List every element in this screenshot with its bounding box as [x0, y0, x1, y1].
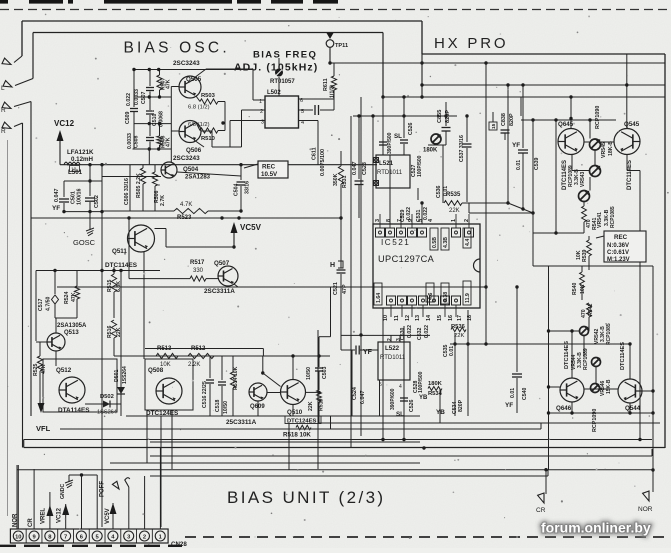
svg-text:C838: C838 — [501, 113, 507, 126]
wires Q509 Q510 — [267, 392, 281, 394]
svg-text:VC5V: VC5V — [240, 223, 262, 232]
svg-text:0.01: 0.01 — [510, 388, 516, 398]
svg-text:18: 18 — [467, 315, 473, 321]
resistor R510 6.8 — [200, 128, 218, 133]
svg-text:4.4: 4.4 — [465, 239, 471, 246]
svg-text:Q504: Q504 — [183, 166, 199, 173]
svg-text:2SC3311A: 2SC3311A — [204, 288, 235, 295]
svg-text:1SS264: 1SS264 — [122, 366, 128, 384]
cap YF C540 — [516, 287, 518, 372]
svg-text:C509: C509 — [125, 111, 131, 124]
frame step to HX PRO line — [422, 53, 665, 55]
svg-text:Q506: Q506 — [186, 147, 202, 154]
cap C516 — [209, 356, 211, 378]
cap C51x 15 — [492, 112, 494, 122]
vertical x147 — [146, 410, 148, 463]
diagonal wire — [508, 203, 533, 213]
transistor Q545 — [614, 129, 640, 155]
svg-text:0.0033: 0.0033 — [127, 133, 133, 149]
svg-text:4.38: 4.38 — [443, 292, 449, 302]
svg-text:2SA1283: 2SA1283 — [185, 175, 211, 181]
svg-text:Q507: Q507 — [214, 260, 230, 267]
bottom dashed line — [185, 536, 671, 538]
transistor Q506 — [179, 121, 201, 143]
cap C501 cluster — [89, 165, 91, 181]
resistor R503 6.8 — [200, 99, 218, 104]
svg-text:C507: C507 — [141, 91, 147, 104]
resistor R539 10K — [587, 240, 592, 256]
oscillator cap bank rails — [133, 69, 254, 71]
pot VR541 — [579, 191, 590, 202]
svg-text:IC521: IC521 — [381, 238, 410, 247]
svg-text:47K: 47K — [166, 137, 172, 147]
svg-text:L: L — [1, 85, 5, 92]
transformer L521 — [376, 155, 410, 188]
resistors R505 R506 vertical — [140, 168, 145, 184]
IC bottom pins — [387, 296, 396, 305]
L502 pin6 wire — [299, 98, 335, 100]
svg-text:BIAS OSC.: BIAS OSC. — [124, 40, 230, 57]
cap C504 — [240, 165, 242, 180]
left scan edge line — [7, 140, 9, 516]
svg-text:C523: C523 — [362, 162, 368, 175]
cap C527 — [417, 188, 419, 200]
svg-text:C516 22/25: C516 22/25 — [202, 381, 208, 408]
vertical x330 — [330, 416, 332, 429]
svg-text:R517: R517 — [190, 260, 205, 266]
bus line y476 — [150, 475, 548, 477]
svg-text:13: 13 — [415, 315, 421, 321]
rail y86 — [422, 84, 665, 86]
svg-text:Q510: Q510 — [287, 409, 303, 416]
svg-text:10K: 10K — [580, 284, 586, 294]
bus line y463 — [110, 462, 420, 464]
cluster bottom rail — [64, 211, 102, 213]
resistor R541 470 — [582, 206, 587, 222]
svg-text:2SC3243: 2SC3243 — [173, 155, 200, 162]
pot VR542 — [580, 327, 589, 336]
svg-text:0.5B: 0.5B — [432, 237, 438, 248]
svg-text:R524: R524 — [64, 291, 70, 304]
wire x546 down — [548, 266, 550, 470]
svg-text:18K-B: 18K-B — [608, 141, 614, 156]
cap 390P/500 SL — [382, 116, 384, 140]
svg-text:R541: R541 — [592, 217, 598, 230]
svg-text:12: 12 — [405, 315, 411, 321]
svg-text:C506 33/16: C506 33/16 — [124, 178, 130, 205]
svg-text:VREL: VREL — [41, 508, 47, 524]
svg-text:YB: YB — [419, 395, 428, 401]
pot VR545 — [590, 139, 601, 150]
base spine x171 — [170, 87, 172, 132]
transistor Q512 — [59, 377, 85, 403]
resistor R531 350K — [340, 151, 342, 166]
NOR connector — [652, 413, 654, 492]
main rail y165 — [60, 164, 377, 166]
svg-text:C503: C503 — [322, 366, 328, 379]
pot VR544 — [592, 358, 601, 367]
cap C517 — [54, 271, 56, 295]
test point TP11 — [327, 33, 334, 39]
svg-text:C855: C855 — [437, 110, 443, 123]
svg-text:NOR: NOR — [638, 506, 653, 513]
svg-text:C526: C526 — [408, 122, 414, 135]
transistor Q511 — [128, 225, 155, 252]
left connector arrow 4 R — [14, 123, 23, 127]
svg-text:RTD1011: RTD1011 — [380, 355, 406, 361]
svg-text:YF: YF — [512, 142, 520, 149]
svg-text:4: 4 — [428, 219, 434, 222]
svg-text:C524: C524 — [352, 387, 358, 400]
svg-text:0.01: 0.01 — [449, 346, 455, 356]
svg-text:2.7K: 2.7K — [160, 195, 166, 206]
svg-text:R: R — [1, 128, 6, 135]
REC levels flag — [596, 236, 604, 238]
connector CN28 box — [10, 529, 168, 543]
svg-text:C521: C521 — [333, 282, 339, 295]
svg-text:DTC114ES: DTC114ES — [105, 262, 138, 269]
svg-text:C:0.61V: C:0.61V — [607, 250, 629, 256]
svg-text:CR: CR — [28, 518, 34, 527]
svg-text:10K: 10K — [160, 362, 171, 368]
svg-text:C532: C532 — [417, 327, 423, 340]
svg-text:D501: D501 — [114, 369, 120, 382]
rail y356 — [114, 355, 330, 357]
svg-text:8: 8 — [386, 219, 392, 222]
connector stub 3 POFF switch — [128, 487, 130, 529]
svg-text:REC: REC — [614, 234, 628, 241]
pot RT01057 — [278, 58, 280, 67]
svg-text:RCP1085: RCP1085 — [606, 323, 612, 345]
connector stub 9 CR — [33, 469, 35, 529]
rail segment y176 — [102, 176, 161, 178]
svg-text:C504: C504 — [234, 183, 240, 196]
transistor Q508 — [156, 378, 182, 404]
cap C521 47P — [340, 218, 342, 268]
svg-text:Q512: Q512 — [56, 367, 72, 374]
diode D501 column — [120, 271, 122, 417]
cap YF C524 — [355, 346, 357, 355]
svg-text:390P/600: 390P/600 — [390, 388, 396, 410]
resistor R512 2.2K — [188, 353, 214, 358]
transistor Q507 — [218, 266, 238, 286]
svg-text:C517: C517 — [38, 298, 44, 311]
wire x556 — [555, 120, 557, 233]
svg-text:0.022: 0.022 — [424, 325, 430, 338]
svg-text:330: 330 — [193, 268, 204, 274]
svg-text:R515: R515 — [107, 279, 113, 292]
svg-text:7: 7 — [397, 219, 403, 222]
svg-text:4.3B: 4.3B — [443, 237, 449, 248]
svg-text:0.047: 0.047 — [54, 189, 60, 203]
svg-text:D502: D502 — [100, 394, 114, 400]
svg-text:11.9: 11.9 — [465, 293, 471, 303]
resistor R540 10K — [580, 272, 585, 288]
svg-text:R: R — [1, 107, 6, 114]
scan speckles — [428, 16, 429, 17]
svg-text:RCP1090: RCP1090 — [595, 106, 601, 129]
svg-text:SL: SL — [396, 411, 404, 418]
resistor R525 — [37, 356, 42, 371]
resistor R513 10K — [156, 353, 178, 358]
svg-text:R518 10K: R518 10K — [283, 432, 311, 439]
svg-text:VFL: VFL — [36, 424, 51, 433]
svg-text:15: 15 — [491, 123, 497, 129]
bus line y442 — [150, 441, 420, 443]
svg-text:C510: C510 — [152, 113, 158, 126]
svg-text:UPC1297CA: UPC1297CA — [378, 254, 435, 264]
svg-text:DTC124ES: DTC124ES — [287, 418, 316, 424]
svg-text:C530: C530 — [400, 327, 406, 340]
transformer L522 — [378, 342, 410, 380]
resistor R523 — [102, 210, 174, 212]
rail y270 left — [36, 270, 160, 272]
page top thin dashed line — [0, 9, 671, 11]
svg-text:C518: C518 — [215, 399, 221, 412]
Q512 loop box — [43, 359, 117, 412]
svg-text:C526: C526 — [409, 399, 415, 412]
CR connector — [545, 470, 547, 494]
Q508 loop box — [145, 359, 193, 410]
svg-text:RT01057: RT01057 — [270, 79, 295, 85]
svg-text:VR545: VR545 — [601, 142, 607, 158]
svg-text:2: 2 — [387, 338, 393, 341]
svg-text:22K: 22K — [308, 401, 314, 411]
svg-text:R519: R519 — [319, 398, 325, 411]
svg-text:180K: 180K — [423, 148, 438, 154]
svg-text:Q646: Q646 — [556, 405, 572, 412]
svg-text:C611: C611 — [312, 147, 318, 160]
IC top pins — [376, 228, 385, 237]
svg-text:4.6: 4.6 — [428, 293, 434, 300]
bank to rail wire — [148, 149, 150, 165]
svg-text:HX PRO: HX PRO — [434, 35, 508, 52]
VC5V arrow — [231, 222, 238, 233]
connector stub 2 — [144, 476, 146, 529]
svg-text:REC: REC — [262, 164, 276, 171]
svg-text:47K: 47K — [71, 292, 77, 302]
transistor Q504 — [161, 162, 177, 178]
svg-text:forum.onliner.by: forum.onliner.by — [541, 520, 651, 536]
resistor R514 — [232, 356, 234, 372]
svg-text:15: 15 — [437, 315, 443, 321]
svg-text:R535: R535 — [446, 192, 461, 198]
junction dots bus — [422, 446, 425, 449]
svg-text:R611: R611 — [323, 78, 329, 91]
svg-text:1(1/2): 1(1/2) — [330, 85, 336, 98]
svg-text:470: 470 — [581, 309, 587, 318]
svg-text:14: 14 — [426, 315, 432, 321]
svg-text:SL: SL — [394, 133, 402, 140]
L502 pin4 wire — [299, 120, 319, 122]
connector stub 4 VC5V — [112, 503, 114, 529]
bus line y439 — [24, 439, 652, 441]
cap C525 — [403, 116, 405, 138]
svg-text:2SA1305A: 2SA1305A — [57, 323, 87, 329]
svg-text:R540: R540 — [572, 282, 578, 295]
svg-text:NOR: NOR — [13, 513, 19, 527]
svg-text:0.022: 0.022 — [407, 325, 413, 338]
vertical x161 — [160, 416, 162, 527]
svg-text:820P: 820P — [458, 399, 464, 412]
svg-text:47K: 47K — [166, 79, 172, 89]
svg-text:RCP1090: RCP1090 — [592, 409, 598, 432]
svg-text:VC12: VC12 — [57, 507, 63, 523]
svg-text:7: 7 — [64, 534, 67, 540]
rail y120 right — [521, 119, 616, 121]
svg-text:R505 2.2K: R505 2.2K — [136, 173, 142, 198]
svg-text:100P/500: 100P/500 — [418, 371, 424, 393]
svg-text:2SC3243: 2SC3243 — [173, 60, 200, 67]
transistor Q646 — [560, 378, 584, 402]
outer frame top — [22, 20, 422, 22]
svg-text:11: 11 — [394, 315, 400, 321]
left connector arrow 2 L — [15, 79, 33, 86]
rail y423 — [318, 422, 660, 424]
L502 pin2 wire — [242, 109, 266, 111]
link line y318 — [55, 317, 77, 319]
svg-text:C540: C540 — [522, 387, 528, 400]
GNDC ground net — [69, 474, 97, 476]
svg-text:POFF: POFF — [100, 481, 106, 497]
svg-text:C536: C536 — [436, 185, 442, 198]
svg-text:15K-B: 15K-B — [606, 379, 612, 394]
Q506 collector diag — [194, 140, 204, 147]
svg-text:390P/500: 390P/500 — [387, 132, 393, 154]
svg-text:GNDC: GNDC — [60, 483, 66, 499]
svg-text:Q544: Q544 — [625, 405, 641, 412]
svg-text:9: 9 — [408, 219, 414, 222]
svg-text:L521: L521 — [379, 160, 394, 167]
vertical x318 — [317, 330, 319, 469]
svg-text:DTC114ES: DTC114ES — [620, 342, 626, 370]
svg-text:C508: C508 — [134, 135, 140, 148]
svg-text:C537 33/16: C537 33/16 — [459, 135, 465, 162]
svg-text:1SS264: 1SS264 — [97, 410, 117, 416]
svg-text:0.01: 0.01 — [516, 160, 522, 170]
long vertical from rail x102 — [101, 165, 103, 527]
svg-text:R539: R539 — [582, 249, 588, 262]
cap C510 — [149, 97, 151, 110]
REC 10.5V flag — [244, 164, 258, 168]
wire Q507 emitter y287 — [234, 284, 238, 287]
svg-text:Q508: Q508 — [148, 367, 164, 374]
svg-text:GOSC: GOSC — [73, 238, 96, 247]
svg-text:LFA121K: LFA121K — [67, 149, 94, 156]
emitter stubs — [196, 96, 200, 102]
svg-text:L502: L502 — [267, 90, 281, 96]
bus line y469 — [17, 469, 653, 471]
cap C508 — [149, 124, 151, 136]
svg-text:M:1.23V: M:1.23V — [607, 257, 630, 263]
svg-text:Q505: Q505 — [186, 76, 202, 83]
vertical x289 — [288, 423, 290, 470]
wires above IC — [372, 116, 374, 224]
svg-text:BIAS UNIT (2/3): BIAS UNIT (2/3) — [227, 488, 386, 507]
svg-text:R503: R503 — [201, 93, 216, 99]
svg-text:R542: R542 — [588, 303, 594, 316]
watermark text with glow — [541, 520, 651, 536]
svg-text:10.5V: 10.5V — [261, 171, 278, 178]
svg-text:R531: R531 — [342, 175, 348, 188]
svg-text:R516: R516 — [107, 325, 113, 338]
rail y97 — [383, 96, 665, 98]
label R518 10K — [296, 425, 311, 429]
wires right pair — [584, 141, 589, 143]
svg-text:47P: 47P — [342, 284, 348, 294]
cap C536 — [442, 145, 444, 203]
left wire x31 down — [30, 102, 32, 417]
svg-text:47K: 47K — [41, 364, 47, 374]
connector stub 1 — [159, 448, 161, 529]
left wire x22 down — [22, 123, 24, 448]
L502 pin1 wire — [253, 99, 265, 101]
wire y348 to Q509 collector — [145, 348, 263, 350]
rail y335 center — [341, 334, 430, 336]
svg-text:0.022: 0.022 — [406, 207, 412, 220]
resistor R542 470 — [587, 303, 592, 317]
svg-text:10: 10 — [15, 534, 21, 540]
pot VR546 — [591, 384, 600, 393]
svg-text:6.8 (1/2): 6.8 (1/2) — [188, 105, 210, 111]
svg-text:H: H — [330, 262, 335, 269]
transistor Q544 — [618, 379, 642, 403]
resistor R611 — [333, 63, 335, 76]
svg-text:R510: R510 — [201, 136, 215, 142]
VFL arrow — [38, 403, 45, 413]
svg-text:0.022: 0.022 — [126, 93, 132, 106]
resistor R535 22K — [444, 201, 462, 206]
left connector arrow 1 — [14, 56, 22, 63]
svg-text:YF: YF — [52, 205, 60, 212]
svg-text:N:0.36V: N:0.36V — [607, 243, 629, 249]
pot RCP1089 — [590, 166, 601, 177]
svg-text:4: 4 — [399, 384, 402, 390]
connector stub 6 — [81, 475, 83, 529]
svg-text:1.64: 1.64 — [376, 293, 382, 303]
bus line y456 — [150, 455, 652, 457]
svg-text:22K: 22K — [449, 208, 460, 214]
svg-text:VR543: VR543 — [580, 171, 586, 187]
svg-text:1: 1 — [451, 219, 457, 222]
svg-text:2.2K: 2.2K — [188, 362, 200, 368]
resistor R507 — [159, 70, 161, 76]
page top bold dashed strip — [0, 0, 8, 4]
svg-text:25C3311A: 25C3311A — [226, 419, 257, 426]
svg-text:R514 10K: R514 10K — [233, 366, 239, 390]
HX PRO rail y63 — [330, 62, 665, 64]
svg-text:10/50: 10/50 — [223, 401, 229, 414]
svg-text:100/16: 100/16 — [77, 189, 83, 206]
svg-text:L501: L501 — [68, 169, 83, 176]
svg-text:820P: 820P — [509, 113, 515, 126]
svg-text:VC12: VC12 — [54, 119, 75, 128]
transistor Q645 — [558, 129, 584, 155]
L502 pin5 wire and cap C611 — [299, 109, 314, 111]
connector stub 7 VC12 — [65, 504, 67, 529]
rail y116 — [353, 115, 457, 117]
svg-text:Q513: Q513 — [64, 330, 79, 336]
svg-text:33/16: 33/16 — [245, 181, 251, 194]
left connector arrow 3 R — [14, 102, 31, 107]
transistor Q509 — [249, 383, 267, 401]
inner frame top — [33, 32, 383, 34]
svg-text:YF: YF — [505, 402, 513, 409]
svg-text:TP11: TP11 — [335, 43, 348, 49]
svg-text:DTA114ES: DTA114ES — [58, 407, 90, 414]
cap C503 resistor R519 column — [318, 353, 320, 367]
svg-text:10/50: 10/50 — [306, 367, 312, 380]
